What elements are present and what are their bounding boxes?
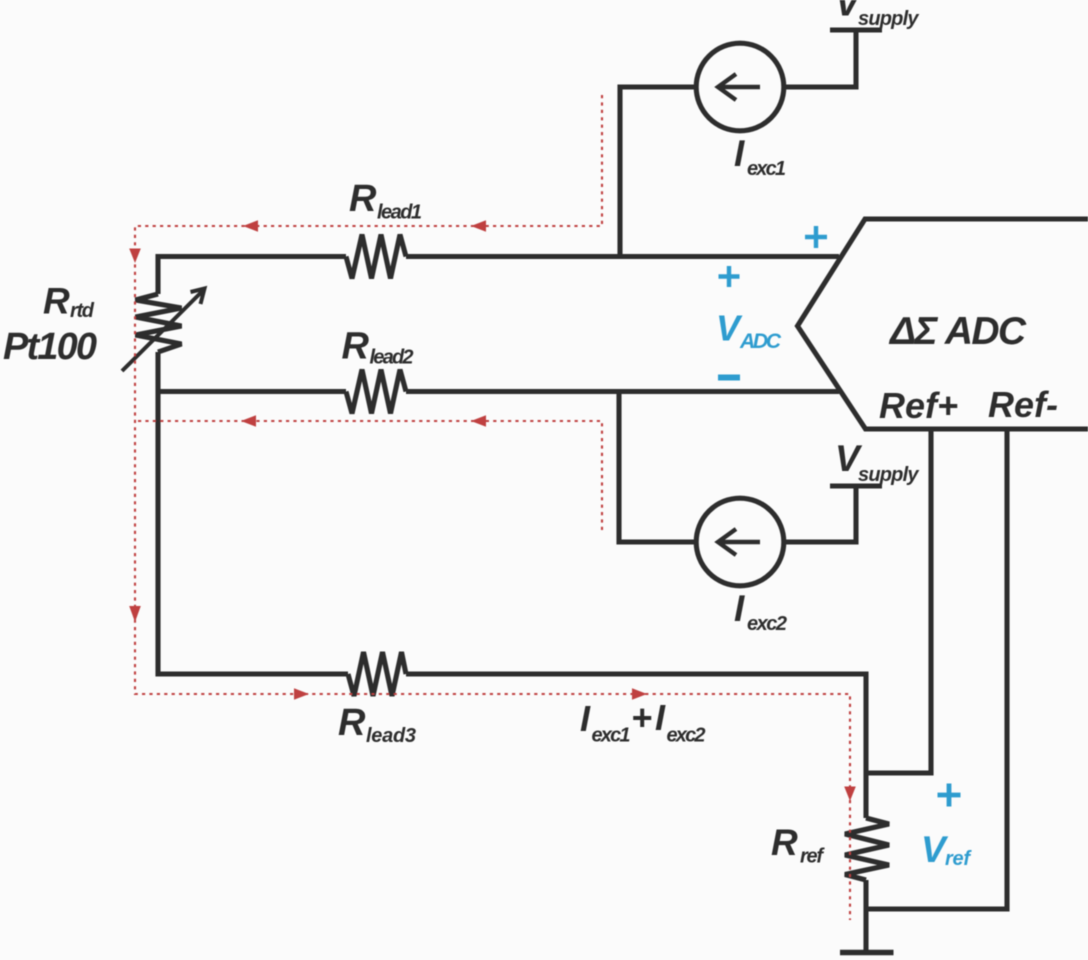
resistor R_ref	[845, 818, 889, 880]
wire I_exc2 to supply	[786, 486, 856, 542]
supply terminal V_supply lower	[830, 484, 882, 489]
svg-text:ΔΣ ADC: ΔΣ ADC	[888, 310, 1027, 353]
resistor R_rtd variable	[136, 294, 182, 352]
blue minus V_ADC	[718, 375, 740, 381]
wire R_lead2 right segment to ADC - input	[406, 389, 839, 394]
blue plus ADC input	[805, 226, 827, 248]
wire I_exc1 to supply	[786, 30, 856, 87]
svg-text:ref: ref	[800, 846, 825, 868]
dash arrow left on I_exc1 path x471	[471, 220, 486, 232]
dash arrow down on R_ref path y801	[844, 787, 856, 802]
dash arrow left on I_exc2 path x471	[471, 415, 486, 427]
wire R_lead1 left segment	[158, 257, 346, 295]
wire bottom right segment	[406, 674, 866, 818]
svg-text:+: +	[631, 697, 652, 738]
svg-text:I: I	[734, 588, 745, 629]
svg-text:lead1: lead1	[377, 202, 422, 224]
svg-text:R: R	[43, 281, 70, 322]
dash arrow right on bottom path x647	[632, 688, 647, 700]
svg-text:ref: ref	[945, 848, 972, 870]
svg-text:R: R	[771, 822, 798, 863]
svg-text:R: R	[342, 326, 370, 368]
dash arrow down on left path y263	[129, 249, 141, 264]
supply terminal V_supply top	[830, 28, 882, 33]
svg-text:exc1: exc1	[747, 158, 786, 180]
wire Ref+ pin	[866, 429, 931, 773]
svg-text:exc1: exc1	[592, 725, 631, 747]
resistor R_lead3	[348, 652, 406, 696]
wire Ref- pin	[866, 429, 1007, 909]
svg-text:exc2: exc2	[667, 725, 706, 747]
arrow inside I_exc2	[718, 529, 760, 555]
svg-text:Ref+: Ref+	[879, 385, 958, 426]
svg-text:Ref-: Ref-	[988, 384, 1058, 425]
svg-text:I: I	[580, 698, 591, 739]
svg-text:I: I	[655, 697, 666, 738]
blue plus V_ADC	[719, 266, 740, 287]
dash arrow left on I_exc2 path x241	[241, 415, 256, 427]
blue plus V_ref	[938, 784, 961, 807]
dash arrow right on bottom path x308	[294, 688, 309, 700]
dashed current path I_exc1	[135, 95, 850, 920]
svg-text:R: R	[338, 702, 366, 744]
svg-text:lead2: lead2	[370, 347, 414, 369]
dashed current path I_exc2	[135, 421, 602, 530]
dash arrow left on I_exc1 path x248	[243, 220, 258, 232]
wire left vertical lower	[158, 352, 348, 674]
delta-sigma ADC body	[798, 219, 1088, 429]
current source I_exc2	[696, 498, 784, 586]
svg-text:supply: supply	[858, 464, 919, 486]
current source I_exc1	[696, 43, 784, 131]
wire R_lead2 left segment	[158, 389, 346, 394]
wire R_ref to ground	[863, 880, 868, 950]
svg-text:lead3: lead3	[366, 725, 416, 747]
wire R_lead1 right segment to ADC + input	[406, 254, 839, 259]
arrow across R_rtd	[122, 289, 205, 372]
resistor R_lead2	[346, 370, 406, 414]
svg-text:Pt100: Pt100	[3, 326, 97, 368]
resistor R_lead1	[346, 235, 406, 279]
wire I_exc1 output to node on R_lead1	[620, 87, 694, 255]
dash arrow down on left path y616	[129, 606, 141, 622]
svg-text:rtd: rtd	[70, 300, 95, 322]
svg-text:supply: supply	[858, 8, 919, 30]
wire I_exc2 output to node on R_lead2	[619, 392, 694, 543]
arrow inside I_exc1	[718, 74, 760, 100]
svg-text:exc2: exc2	[747, 613, 787, 635]
svg-text:V: V	[716, 308, 743, 349]
svg-text:R: R	[349, 178, 377, 220]
ground	[840, 950, 894, 956]
svg-text:ADC: ADC	[739, 330, 782, 353]
svg-text:I: I	[734, 133, 745, 174]
